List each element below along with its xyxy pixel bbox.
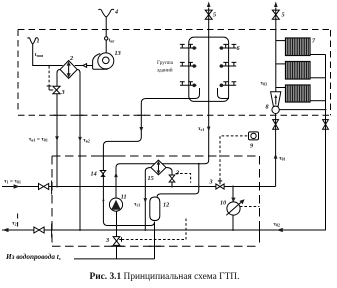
label buildings group — [157, 60, 174, 74]
control dashed link to cold water valve 3d — [122, 219, 187, 240]
wire cold water inlet line — [74, 258, 155, 260]
wire buildings-group bottom right hook — [218, 88, 230, 99]
room sensor 1 fork — [28, 38, 38, 44]
temperature regulator 9 housing — [249, 132, 259, 140]
junction node device 10 at tau2 — [232, 229, 234, 231]
wire pump11 riser and DHW header to tau_g1 riser up to valve 5 — [116, 8, 209, 199]
heat exchanger 15 (diamond) — [151, 160, 166, 175]
valve 3c (on tau1 line) — [216, 184, 224, 189]
wire radiator supply stub 3 — [276, 87, 286, 89]
svg-text:τв2: τв2 — [83, 138, 90, 144]
valve on tau01 riser — [273, 120, 279, 130]
heat exchanger 2 (diamond) — [60, 61, 77, 79]
arrow down tau_v2 riser — [78, 137, 82, 142]
control dashed line from valve 3c up and to device 9 — [220, 136, 249, 180]
svg-text:10: 10 — [220, 200, 226, 207]
svg-text:τв1 = τ01: τв1 = τ01 — [29, 137, 48, 143]
junction node elevator suction at return riser — [325, 109, 327, 111]
valve 3d (cold water make-up) — [113, 237, 120, 246]
temperature regulator 9 inner circle — [251, 133, 256, 138]
svg-text:τ01: τ01 — [279, 156, 285, 162]
svg-text:tпом: tпом — [35, 52, 44, 58]
svg-text:τ1 = τ01: τ1 = τ01 — [4, 179, 21, 185]
control dashed line from pipe to valve 3 upper — [48, 66, 50, 86]
GTP unit dashed enclosure top — [52, 155, 260, 157]
svg-text:12: 12 — [163, 202, 169, 209]
svg-text:11: 11 — [121, 194, 127, 201]
arrow up pump 11 discharge — [114, 172, 118, 177]
valve 3 upper (heating branch) — [53, 86, 60, 93]
wire radiator return stub 1 — [310, 54, 326, 56]
arrow tau1 inlet — [14, 184, 20, 188]
svg-text:15: 15 — [148, 175, 154, 182]
svg-text:τг1: τг1 — [198, 126, 204, 132]
wire elevator 8 cone top riser to radiators and valve 5 — [275, 8, 277, 92]
enclosure dash tick at tau1 left crossing — [51, 181, 53, 195]
wire tau01 riser to elevator 8 — [275, 113, 277, 186]
elevator 8 chamber circle — [272, 106, 279, 113]
junction node tau_v2 at tau2 — [79, 229, 81, 231]
buildings group branch row 3 left — [180, 82, 197, 87]
sensor t_ng node circle — [105, 37, 108, 40]
svg-text:зданий: зданий — [157, 67, 173, 74]
svg-text:5: 5 — [282, 12, 285, 19]
arrow tau2 outlet — [3, 228, 9, 232]
wire heat exchanger 2 left corner riser tau_v1 down to tau1 — [57, 70, 60, 187]
wire heat exchanger 15 right corner drop through valve 3 to tau1 — [166, 167, 172, 186]
air valve 5b — [272, 10, 279, 19]
junction node tau_v1 at tau1 — [56, 186, 58, 188]
building boundary left dashed wall — [17, 30, 19, 111]
junction node device 10 at tau1 — [232, 186, 234, 188]
control dashed line from device 10 to enclosure edge — [240, 206, 260, 208]
arrow up air valve 5b — [274, 2, 278, 8]
GTP unit dashed enclosure bottom — [52, 245, 260, 247]
wire heat exchanger 2 right corner riser tau_v2 down to tau2 — [77, 70, 80, 231]
buildings group 6 rounded frame — [189, 37, 229, 101]
flow regulator 10 body — [227, 202, 240, 215]
svg-text:τг3: τг3 — [134, 202, 140, 208]
wire pump11 suction down to cold water line — [116, 211, 118, 259]
junction node tau_g3 at tau2 — [144, 229, 146, 231]
svg-text:5: 5 — [213, 12, 216, 19]
junction node tank branch at tau1 — [198, 186, 200, 188]
storage tank 12 — [150, 197, 160, 221]
valve on tau02 riser — [323, 120, 329, 130]
svg-text:3: 3 — [105, 237, 109, 244]
svg-text:3: 3 — [61, 89, 65, 96]
junction node pump11 suction — [116, 225, 118, 227]
wire outdoor sensor 4 stem down to regulator 13 — [105, 17, 107, 58]
svg-text:tнг: tнг — [109, 38, 115, 44]
wire radiator return stub 2 — [310, 77, 326, 79]
enclosure dash tick at tau2 left crossing — [51, 224, 53, 238]
valve 14 (mixing branch) — [100, 171, 105, 177]
arrow tau02 return — [277, 228, 283, 232]
svg-text:1: 1 — [37, 38, 40, 45]
svg-text:τ02: τ02 — [274, 222, 280, 228]
svg-text:6: 6 — [237, 45, 241, 52]
arrow down buildings return — [139, 127, 143, 132]
GTP unit dashed enclosure right — [259, 156, 261, 246]
junction node mixing branch at tau1 — [102, 186, 104, 188]
regulator pump 13 volute — [93, 54, 108, 70]
radiator 7 block 2 — [286, 62, 311, 80]
arrow down tau_g3 drop — [144, 198, 148, 203]
floor dash ticks at riser crossings — [54, 114, 146, 116]
valve on tau2 outlet — [34, 227, 44, 233]
wire device 10 lower connection to tau2 — [232, 214, 234, 230]
GTP unit dashed enclosure left — [51, 156, 53, 246]
enclosure dash ticks at bottom edge crossings — [111, 245, 162, 247]
buildings group branch row 2 left — [180, 62, 197, 67]
wire sensor1 riser and pipe to heat exchanger 2 — [33, 44, 63, 66]
wire cold water riser to tank bottom — [154, 222, 156, 259]
svg-text:8: 8 — [266, 104, 269, 111]
valve 3b actuator stem — [171, 172, 173, 175]
wire tau2 return main with elbow from radiator riser — [2, 55, 326, 231]
circulation pump 11 impeller triangle — [111, 200, 121, 210]
svg-text:9: 9 — [250, 143, 253, 150]
left wall lower dashed segment — [17, 214, 19, 227]
svg-text:13: 13 — [115, 50, 121, 57]
arrow up air valve 5a — [207, 2, 211, 8]
valve 3d actuator stem and T — [119, 237, 121, 241]
valve 3b (near heat exchanger 15) — [169, 175, 175, 182]
regulator pump 13 body — [98, 53, 114, 69]
buildings group branch row 1 right — [220, 44, 237, 49]
control dashed link valve 3b to valve 3d riser — [176, 174, 191, 183]
buildings group branch row 3 right — [220, 82, 237, 87]
svg-text:3: 3 — [175, 170, 179, 177]
flow regulator 10 arrow — [226, 202, 242, 216]
wire pump13 outlet to heat exchanger 2 — [75, 65, 93, 67]
air valve 5a — [205, 10, 212, 19]
heat exchanger 15 internal double arrow — [157, 162, 159, 173]
elevator 8 cone — [271, 92, 281, 107]
valve 3c actuator stem and T — [218, 181, 222, 184]
svg-text:τ2: τ2 — [12, 221, 17, 227]
svg-text:3: 3 — [209, 179, 213, 186]
wire heat exchanger 15 left corner tau_g3 drop to tau2 — [145, 167, 151, 230]
wire DHW header branch down to tau1 and tank 12 top — [157, 164, 199, 199]
svg-text:Группа: Группа — [157, 60, 174, 66]
valve on tau1 inlet — [39, 184, 49, 190]
junction node valve 3b at tau1 — [171, 186, 173, 188]
svg-text:2: 2 — [69, 55, 73, 62]
regulator pump 13 inner circle — [103, 57, 110, 64]
wire buildings-group return pipe S-bend through valve 14 to suction — [103, 88, 199, 226]
open arrow from pump 13 to heat exchanger 2 — [83, 64, 87, 68]
arrow down tau_v1 riser — [55, 136, 59, 141]
wire elevator 8 suction from radiator return riser — [279, 109, 325, 111]
wire device 10 upper connection — [232, 187, 234, 202]
svg-text:Из водопровода tх: Из водопровода tх — [5, 253, 61, 261]
wire tau1 supply main — [2, 186, 276, 188]
radiator 7 block 3 — [286, 85, 311, 102]
buildings group branch row 1 left — [180, 44, 197, 49]
wire radiator supply stub 2 — [276, 63, 286, 65]
outdoor sensor 4 fork — [98, 9, 114, 17]
arrow down tau_g1 riser — [207, 127, 211, 132]
building boundary right dashed wall — [330, 30, 332, 115]
building boundary floor dashed line — [18, 114, 331, 116]
wire radiator supply stub 1 — [276, 40, 286, 42]
enclosure dash ticks at top edge crossings — [99, 155, 122, 157]
junction node header branch — [198, 163, 200, 165]
circulation pump 11 body — [109, 198, 122, 211]
building boundary top dashed line — [18, 29, 331, 31]
junction node mixing line — [102, 199, 104, 201]
wire radiator return stub 3 — [310, 100, 326, 102]
svg-text:14: 14 — [91, 171, 97, 178]
heat exchanger 2 internal double arrow — [68, 63, 70, 76]
enclosure dash tick at tau2 right crossing — [259, 224, 261, 237]
svg-text:Рис. 3.1 Принципиальная схема: Рис. 3.1 Принципиальная схема ГТП. — [90, 272, 240, 282]
valve 3 upper actuator T and stem — [47, 86, 54, 90]
arrow into flow regulator 10 — [231, 198, 235, 202]
svg-text:7: 7 — [312, 38, 316, 45]
buildings group branch row 2 right — [220, 62, 237, 67]
radiator 7 block 1 — [286, 38, 311, 56]
svg-text:τ03: τ03 — [261, 81, 267, 87]
svg-text:4: 4 — [114, 9, 118, 16]
elevator 8 internal arrow — [275, 97, 277, 105]
arrow up on tau01 riser — [274, 154, 278, 159]
